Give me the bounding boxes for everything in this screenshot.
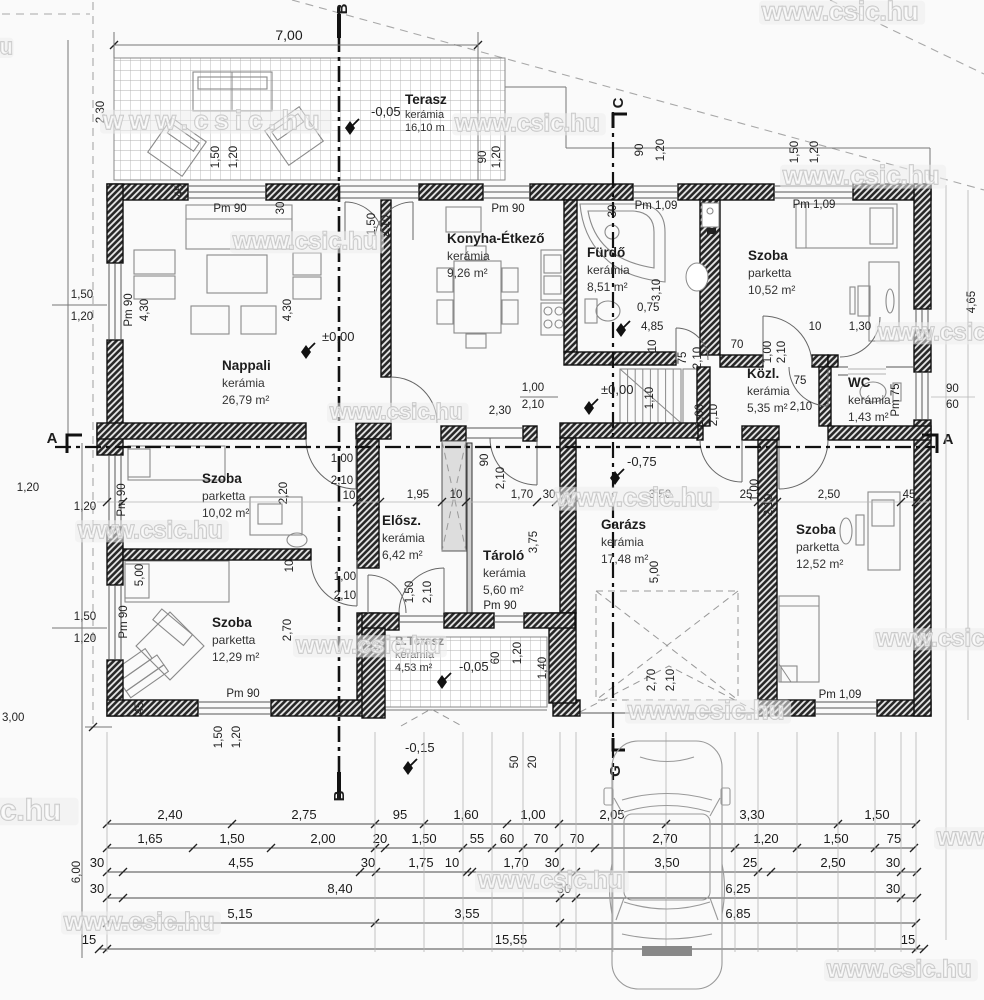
svg-text:Pm 90: Pm 90 bbox=[213, 203, 246, 215]
svg-text:kerámia: kerámia bbox=[222, 376, 265, 390]
svg-text:6,85: 6,85 bbox=[725, 906, 750, 921]
svg-text:3,30: 3,30 bbox=[739, 807, 764, 822]
svg-text:Közl.: Közl. bbox=[747, 366, 779, 381]
svg-text:kerámia: kerámia bbox=[587, 263, 630, 277]
svg-text:15,55: 15,55 bbox=[495, 932, 528, 947]
svg-text:60: 60 bbox=[946, 399, 959, 411]
svg-text:kerámia: kerámia bbox=[747, 384, 790, 398]
svg-text:±0,00: ±0,00 bbox=[322, 329, 354, 344]
svg-text:2,70: 2,70 bbox=[646, 669, 658, 691]
svg-text:2,20: 2,20 bbox=[278, 482, 290, 504]
svg-text:17,48 m²: 17,48 m² bbox=[601, 552, 648, 566]
svg-text:hu: hu bbox=[0, 34, 13, 59]
svg-text:9,26 m²: 9,26 m² bbox=[447, 266, 488, 280]
svg-text:3,50: 3,50 bbox=[654, 855, 679, 870]
svg-text:csic.hu: csic.hu bbox=[0, 794, 61, 827]
svg-text:Pm 1,09: Pm 1,09 bbox=[793, 199, 836, 211]
svg-text:Pm 90: Pm 90 bbox=[226, 688, 259, 700]
svg-text:70: 70 bbox=[731, 339, 744, 351]
svg-text:Pm 90: Pm 90 bbox=[123, 293, 135, 326]
svg-text:Pm 75: Pm 75 bbox=[890, 383, 902, 416]
svg-text:2,50: 2,50 bbox=[820, 855, 845, 870]
svg-text:1,00: 1,00 bbox=[331, 453, 353, 465]
svg-text:90: 90 bbox=[946, 383, 959, 395]
svg-text:2,10: 2,10 bbox=[522, 399, 544, 411]
svg-text:www.c: www.c bbox=[936, 824, 984, 851]
svg-text:2,00: 2,00 bbox=[310, 831, 335, 846]
svg-text:75: 75 bbox=[794, 375, 807, 387]
svg-text:Elősz.: Elősz. bbox=[382, 513, 421, 528]
svg-text:8,51 m²: 8,51 m² bbox=[587, 280, 628, 294]
svg-text:parketta: parketta bbox=[748, 266, 792, 280]
svg-text:30: 30 bbox=[90, 881, 104, 896]
svg-text:1,00: 1,00 bbox=[334, 571, 356, 583]
svg-text:15: 15 bbox=[901, 932, 915, 947]
svg-text:kerámia: kerámia bbox=[447, 249, 490, 263]
svg-text:Fürdő: Fürdő bbox=[587, 245, 625, 260]
svg-text:12,29 m²: 12,29 m² bbox=[212, 650, 259, 664]
svg-text:G: G bbox=[607, 765, 624, 777]
svg-text:kerámia: kerámia bbox=[601, 535, 644, 549]
svg-text:2,30: 2,30 bbox=[489, 405, 511, 417]
svg-text:4,30: 4,30 bbox=[282, 299, 294, 321]
svg-text:Pm 90: Pm 90 bbox=[491, 203, 524, 215]
svg-text:90: 90 bbox=[477, 151, 489, 164]
svg-text:-0,15: -0,15 bbox=[405, 740, 435, 755]
svg-text:-0,05: -0,05 bbox=[371, 104, 401, 119]
svg-text:2,10: 2,10 bbox=[665, 669, 677, 691]
svg-text:www.csic.hu: www.csic.hu bbox=[63, 908, 215, 936]
svg-text:1,00: 1,00 bbox=[522, 382, 544, 394]
svg-text:www.csic.hu: www.csic.hu bbox=[877, 319, 984, 346]
svg-text:1,50: 1,50 bbox=[71, 289, 93, 301]
svg-text:30: 30 bbox=[607, 205, 619, 218]
svg-text:Szoba: Szoba bbox=[796, 522, 836, 537]
svg-text:4,53 m²: 4,53 m² bbox=[395, 662, 433, 674]
svg-text:30: 30 bbox=[275, 202, 287, 215]
svg-text:1,20: 1,20 bbox=[74, 633, 96, 645]
svg-text:70: 70 bbox=[534, 831, 548, 846]
svg-text:4,30: 4,30 bbox=[139, 299, 151, 321]
svg-text:Pm 90: Pm 90 bbox=[118, 605, 130, 638]
svg-text:60: 60 bbox=[490, 652, 502, 665]
svg-text:2,10: 2,10 bbox=[334, 590, 356, 602]
svg-text:www.csic.hu: www.csic.hu bbox=[761, 0, 919, 26]
svg-text:1,50: 1,50 bbox=[210, 146, 222, 168]
svg-text:www.csic.hu: www.csic.hu bbox=[232, 228, 377, 255]
svg-text:1,95: 1,95 bbox=[407, 489, 429, 501]
svg-text:A: A bbox=[47, 430, 58, 447]
svg-text:1,20: 1,20 bbox=[231, 726, 243, 748]
svg-text:2,70: 2,70 bbox=[652, 831, 677, 846]
svg-text:www.csic.hu: www.csic.hu bbox=[329, 399, 462, 424]
svg-text:3,10: 3,10 bbox=[651, 279, 663, 301]
svg-text:70: 70 bbox=[570, 831, 584, 846]
svg-text:Tároló: Tároló bbox=[483, 548, 524, 563]
svg-text:75: 75 bbox=[677, 352, 689, 365]
svg-text:1,50: 1,50 bbox=[864, 807, 889, 822]
svg-text:2,10: 2,10 bbox=[790, 401, 812, 413]
svg-text:3,75: 3,75 bbox=[528, 531, 540, 553]
svg-text:50: 50 bbox=[509, 756, 521, 769]
svg-text:10: 10 bbox=[647, 340, 659, 353]
svg-text:26,79 m²: 26,79 m² bbox=[222, 393, 269, 407]
svg-text:1,20: 1,20 bbox=[17, 482, 39, 494]
svg-text:1,75: 1,75 bbox=[408, 855, 433, 870]
svg-text:www.csic.hu: www.csic.hu bbox=[555, 482, 713, 512]
svg-text:www.csic.hu: www.csic.hu bbox=[826, 956, 971, 983]
svg-text:20: 20 bbox=[527, 756, 539, 769]
svg-text:Nappali: Nappali bbox=[222, 358, 271, 373]
svg-text:7,00: 7,00 bbox=[275, 27, 302, 43]
svg-text:www.csic.hu: www.csic.hu bbox=[102, 105, 326, 135]
svg-text:6,25: 6,25 bbox=[725, 881, 750, 896]
svg-text:6,42 m²: 6,42 m² bbox=[382, 548, 423, 562]
svg-text:1,50: 1,50 bbox=[219, 831, 244, 846]
svg-text:Pm 90: Pm 90 bbox=[483, 600, 516, 612]
svg-text:±0,00: ±0,00 bbox=[601, 382, 633, 397]
svg-text:Pm 1,09: Pm 1,09 bbox=[635, 200, 678, 212]
svg-text:6,00: 6,00 bbox=[71, 861, 83, 883]
svg-text:4,85: 4,85 bbox=[641, 321, 663, 333]
svg-text:1,43 m²: 1,43 m² bbox=[848, 410, 889, 424]
svg-text:25: 25 bbox=[740, 489, 753, 501]
svg-text:10: 10 bbox=[284, 560, 296, 573]
svg-text:10: 10 bbox=[445, 855, 459, 870]
svg-text:10: 10 bbox=[809, 321, 822, 333]
svg-text:B: B bbox=[331, 790, 348, 801]
svg-text:12,52 m²: 12,52 m² bbox=[796, 557, 843, 571]
svg-text:5,15: 5,15 bbox=[227, 906, 252, 921]
svg-text:95: 95 bbox=[393, 807, 407, 822]
svg-text:WC: WC bbox=[848, 375, 871, 390]
svg-text:25: 25 bbox=[743, 855, 757, 870]
svg-text:Garázs: Garázs bbox=[601, 517, 646, 532]
svg-text:1,20: 1,20 bbox=[753, 831, 778, 846]
svg-text:55: 55 bbox=[470, 831, 484, 846]
svg-text:1,50: 1,50 bbox=[213, 726, 225, 748]
svg-text:A: A bbox=[943, 431, 954, 448]
svg-text:-0,75: -0,75 bbox=[627, 454, 657, 469]
svg-text:Konyha-Étkező: Konyha-Étkező bbox=[447, 231, 545, 246]
svg-text:1,00: 1,00 bbox=[762, 341, 774, 363]
svg-text:10: 10 bbox=[343, 490, 356, 502]
svg-text:1,10: 1,10 bbox=[644, 387, 656, 409]
svg-text:2,40: 2,40 bbox=[157, 807, 182, 822]
svg-text:45: 45 bbox=[134, 702, 146, 715]
svg-text:www.csic.hu: www.csic.hu bbox=[77, 517, 222, 544]
svg-text:2,10: 2,10 bbox=[495, 467, 507, 489]
svg-text:Pm 90: Pm 90 bbox=[116, 483, 128, 516]
svg-text:Terasz: Terasz bbox=[405, 92, 447, 107]
svg-text:1,30: 1,30 bbox=[849, 321, 871, 333]
svg-text:1,20: 1,20 bbox=[74, 501, 96, 513]
svg-text:1,20: 1,20 bbox=[491, 146, 503, 168]
svg-text:-0,05: -0,05 bbox=[459, 659, 489, 674]
svg-text:75: 75 bbox=[887, 831, 901, 846]
svg-text:30: 30 bbox=[886, 881, 900, 896]
svg-text:Pm 1,09: Pm 1,09 bbox=[819, 689, 862, 701]
svg-text:kerámia: kerámia bbox=[848, 393, 891, 407]
svg-text:1,50: 1,50 bbox=[74, 611, 96, 623]
svg-text:30: 30 bbox=[886, 855, 900, 870]
svg-text:5,35 m²: 5,35 m² bbox=[747, 401, 788, 415]
svg-text:2,10: 2,10 bbox=[692, 347, 704, 369]
svg-text:2,75: 2,75 bbox=[291, 807, 316, 822]
svg-text:5,00: 5,00 bbox=[134, 564, 146, 586]
svg-text:Szoba: Szoba bbox=[202, 471, 242, 486]
svg-text:30: 30 bbox=[90, 855, 104, 870]
svg-text:Szoba: Szoba bbox=[212, 615, 252, 630]
svg-text:www.csic.hu: www.csic.hu bbox=[782, 160, 940, 190]
svg-text:1,65: 1,65 bbox=[137, 831, 162, 846]
svg-text:www.csic.hu: www.csic.hu bbox=[875, 625, 984, 652]
svg-text:1,20: 1,20 bbox=[655, 139, 667, 161]
svg-text:4,55: 4,55 bbox=[228, 855, 253, 870]
svg-text:90: 90 bbox=[479, 454, 491, 467]
svg-text:B: B bbox=[334, 3, 351, 14]
svg-text:1,00: 1,00 bbox=[694, 404, 706, 426]
svg-text:2,10: 2,10 bbox=[331, 475, 353, 487]
svg-text:10: 10 bbox=[450, 489, 463, 501]
svg-text:2,10: 2,10 bbox=[422, 581, 434, 603]
svg-text:www.csic.hu: www.csic.hu bbox=[295, 632, 440, 659]
svg-text:www.csic.hu: www.csic.hu bbox=[477, 867, 622, 894]
svg-text:8,40: 8,40 bbox=[327, 881, 352, 896]
svg-text:www.csic.hu: www.csic.hu bbox=[627, 695, 785, 725]
svg-text:1,20: 1,20 bbox=[71, 311, 93, 323]
svg-text:45: 45 bbox=[174, 185, 186, 198]
svg-text:2,10: 2,10 bbox=[708, 404, 720, 426]
svg-text:2,10: 2,10 bbox=[776, 341, 788, 363]
svg-text:parketta: parketta bbox=[202, 489, 246, 503]
svg-text:kerámia: kerámia bbox=[382, 531, 425, 545]
svg-text:2,70: 2,70 bbox=[282, 619, 294, 641]
svg-text:1,00: 1,00 bbox=[520, 807, 545, 822]
svg-text:1,50: 1,50 bbox=[404, 581, 416, 603]
svg-text:2,50: 2,50 bbox=[818, 489, 840, 501]
svg-text:parketta: parketta bbox=[796, 540, 840, 554]
svg-text:3,55: 3,55 bbox=[454, 906, 479, 921]
svg-text:parketta: parketta bbox=[212, 633, 256, 647]
svg-text:1,20: 1,20 bbox=[512, 642, 524, 664]
svg-text:1,70: 1,70 bbox=[511, 489, 533, 501]
svg-text:1,40: 1,40 bbox=[537, 657, 549, 679]
svg-text:C: C bbox=[610, 97, 627, 108]
svg-text:5,60 m²: 5,60 m² bbox=[483, 583, 524, 597]
svg-text:16,10 m: 16,10 m bbox=[405, 122, 445, 134]
svg-text:Szoba: Szoba bbox=[748, 248, 788, 263]
svg-text:www.csic.hu: www.csic.hu bbox=[454, 110, 599, 137]
svg-text:90: 90 bbox=[634, 144, 646, 157]
svg-text:60: 60 bbox=[500, 831, 514, 846]
svg-text:1,20: 1,20 bbox=[228, 146, 240, 168]
svg-text:kerámia: kerámia bbox=[483, 566, 526, 580]
svg-text:5,00: 5,00 bbox=[649, 561, 661, 583]
svg-text:kerámia: kerámia bbox=[405, 109, 445, 121]
svg-text:0,75: 0,75 bbox=[637, 302, 659, 314]
svg-text:3,00: 3,00 bbox=[2, 712, 24, 724]
svg-text:1,50: 1,50 bbox=[823, 831, 848, 846]
svg-text:1,60: 1,60 bbox=[453, 807, 478, 822]
svg-text:30: 30 bbox=[361, 855, 375, 870]
svg-text:10,52 m²: 10,52 m² bbox=[748, 283, 795, 297]
